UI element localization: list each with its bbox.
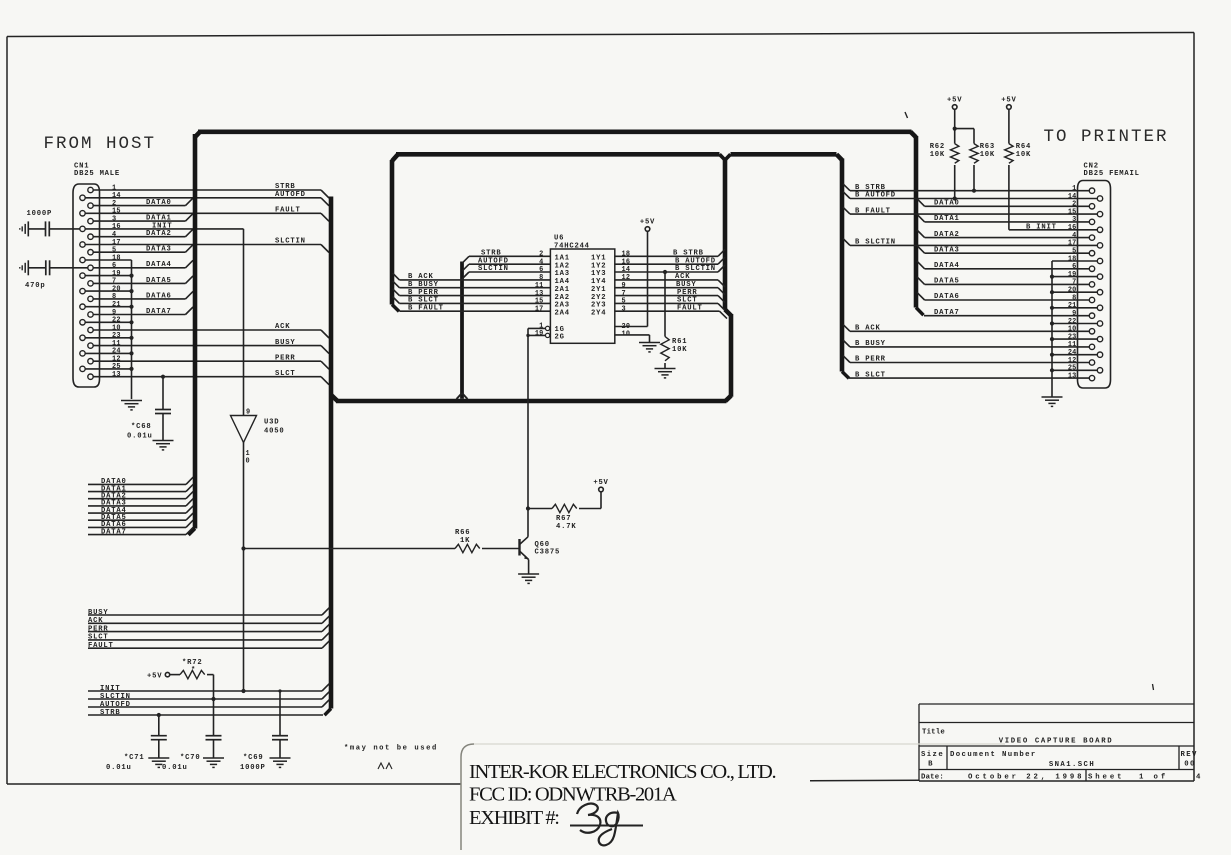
- svg-text:12: 12: [1068, 357, 1077, 365]
- wire ACK - U6 2Y1 to bottom bus: [615, 273, 725, 287]
- svg-text:21: 21: [1068, 302, 1077, 310]
- svg-text:+5V: +5V: [147, 673, 162, 681]
- svg-text:R62: R62: [930, 143, 945, 151]
- IC U6 74HC244: [545, 235, 614, 344]
- wire CN1 ground pins 18-25: [85, 260, 133, 399]
- svg-text:20: 20: [1068, 287, 1077, 295]
- bus - data bus right vertical: [911, 132, 924, 315]
- wire B SLCT - riser to CN2 pin 13: [849, 371, 1089, 379]
- wire AUTOFD - riser to U6 1A2: [462, 257, 550, 271]
- svg-text:15: 15: [535, 298, 544, 306]
- svg-text:October 22, 1998: October 22, 1998: [968, 774, 1084, 782]
- ground - C70: [203, 758, 224, 767]
- resistor R67 4.7K: [528, 492, 601, 531]
- wire STRB - CN1 pin 1 to control bus: [93, 183, 329, 198]
- svg-text:Title: Title: [922, 729, 945, 737]
- ground - C71: [148, 758, 169, 767]
- svg-text:DATA6: DATA6: [934, 293, 960, 301]
- svg-text:10K: 10K: [930, 151, 945, 159]
- svg-text:74HC244: 74HC244: [554, 242, 590, 250]
- net stub BUSY (lower left): [88, 608, 329, 617]
- svg-text:2Y2: 2Y2: [591, 294, 606, 302]
- ground - U6 pin 10: [639, 343, 660, 352]
- svg-text:14: 14: [1068, 193, 1077, 201]
- svg-text:18: 18: [1068, 255, 1077, 263]
- wire B PERR - riser to CN2 pin 12: [843, 356, 1089, 364]
- resistor R61 10K on B SLCTIN: [661, 270, 688, 368]
- svg-text:9: 9: [112, 309, 116, 317]
- svg-text:REV: REV: [1181, 751, 1198, 759]
- svg-text:0.01u: 0.01u: [162, 764, 188, 772]
- resistor R63 10K pull-up on B STRB: [955, 129, 995, 193]
- svg-text:*C71: *C71: [124, 754, 144, 762]
- svg-text:8: 8: [1072, 294, 1076, 302]
- ground - 470p cap: [20, 260, 29, 275]
- svg-text:23: 23: [1068, 333, 1077, 341]
- svg-text:1 of: 1 of: [1139, 774, 1168, 782]
- svg-text:2A3: 2A3: [555, 302, 570, 310]
- svg-text:+5V: +5V: [593, 479, 608, 487]
- svg-text:6: 6: [539, 266, 543, 274]
- wire AUTOFD - CN1 pin 14 to control bus: [85, 191, 329, 206]
- svg-text:10: 10: [1068, 326, 1077, 334]
- bus - data bus left vertical: [189, 132, 201, 535]
- svg-text:12: 12: [622, 274, 631, 282]
- svg-text:25: 25: [112, 363, 121, 371]
- svg-text:Document Number: Document Number: [950, 751, 1037, 759]
- svg-text:*C69: *C69: [243, 754, 263, 762]
- wire U6 pin 10 to ground: [615, 335, 650, 342]
- wire DATA7 - CN1 pin 9 to data bus: [93, 307, 193, 316]
- CN2 pin numbers: [1068, 185, 1077, 380]
- net stub DATA7 (lower left): [88, 527, 193, 536]
- svg-text:1A3: 1A3: [555, 270, 570, 278]
- net stub DATA6 (lower left): [88, 520, 193, 529]
- svg-text:5: 5: [112, 247, 116, 255]
- svg-text:24: 24: [1068, 349, 1077, 357]
- wire ACK - CN1 pin 10 to control bus: [93, 323, 329, 338]
- svg-text:BUSY: BUSY: [676, 281, 696, 289]
- svg-text:4: 4: [1196, 774, 1203, 782]
- net stub DATA3 (lower left): [88, 499, 193, 508]
- svg-text:2: 2: [1072, 201, 1076, 209]
- svg-text:PERR: PERR: [677, 289, 697, 297]
- wire B SLCTIN - riser to CN2 pin 17: [843, 239, 1097, 247]
- wire STRB - riser to U6 1A1: [462, 250, 550, 264]
- svg-text:B BUSY: B BUSY: [855, 340, 886, 348]
- svg-text:ACK: ACK: [88, 617, 103, 625]
- wire SLCTIN - CN1 pin 17 to control bus: [85, 238, 329, 253]
- svg-text:STRB: STRB: [275, 183, 295, 191]
- capacitor C70 0.01u on SLCTIN: [162, 699, 222, 772]
- svg-text:PERR: PERR: [275, 354, 295, 362]
- wire B SLCT - loop bus to U6 pin 15: [393, 297, 551, 305]
- svg-text:1000P: 1000P: [240, 764, 266, 772]
- svg-text:BUSY: BUSY: [88, 609, 108, 617]
- annotation: *may not be used: [344, 745, 438, 770]
- resistor R72 pull-up on SLCTIN: [147, 659, 216, 701]
- svg-text:B ACK: B ACK: [855, 325, 881, 333]
- svg-text:B AUTOFD: B AUTOFD: [675, 257, 716, 265]
- svg-text:DATA1: DATA1: [146, 215, 172, 223]
- bus - U6 output right vertical: [725, 158, 731, 397]
- svg-text:DATA5: DATA5: [146, 277, 172, 285]
- svg-text:DATA0: DATA0: [934, 200, 960, 208]
- wire DATA1 - data bus to CN2 pin 3: [917, 214, 1089, 223]
- resistor R62 10K pull-up on B AUTOFD: [930, 109, 959, 200]
- svg-text:23: 23: [112, 332, 121, 340]
- svg-text:1A1: 1A1: [555, 255, 570, 263]
- bus - U6 input riser: [457, 262, 468, 400]
- annotation: TO PRINTER heading: [1044, 127, 1169, 147]
- svg-text:B SLCTIN: B SLCTIN: [675, 265, 716, 273]
- svg-text:SLCT: SLCT: [88, 634, 108, 642]
- svg-text:19: 19: [112, 270, 121, 278]
- svg-text:ACK: ACK: [675, 273, 690, 281]
- svg-text:6: 6: [112, 262, 116, 270]
- net stub DATA5 (lower left): [88, 513, 193, 522]
- svg-text:8: 8: [112, 293, 116, 301]
- wire B STRB - riser to CN2 pin 1: [843, 184, 1089, 192]
- wire FAULT - U6 2Y5 to bottom bus: [615, 304, 727, 318]
- svg-text:14: 14: [622, 266, 631, 274]
- svg-text:ACK: ACK: [275, 323, 290, 331]
- svg-text:DATA4: DATA4: [934, 262, 960, 270]
- svg-text:FAULT: FAULT: [677, 304, 703, 312]
- CN1 pin numbers: [112, 184, 121, 379]
- svg-text:0.01u: 0.01u: [127, 433, 153, 441]
- svg-text:DATA7: DATA7: [934, 309, 960, 317]
- svg-text:R67: R67: [556, 515, 571, 523]
- svg-text:11: 11: [535, 282, 544, 290]
- svg-text:SLCT: SLCT: [677, 297, 697, 305]
- U6 pin numbers: [535, 251, 630, 339]
- net stub ACK (lower left): [88, 616, 329, 625]
- svg-text:5: 5: [622, 298, 626, 306]
- svg-text:2A1: 2A1: [555, 286, 570, 294]
- ground - R61: [655, 369, 676, 378]
- svg-text:1A2: 1A2: [555, 262, 570, 270]
- svg-text:2: 2: [539, 251, 543, 259]
- capacitor 470p on DATA4 line: [25, 260, 88, 290]
- bus - control bus bottom horizontal: [336, 396, 731, 401]
- ground - 1000P cap: [20, 221, 29, 236]
- svg-text:1Y3: 1Y3: [591, 270, 606, 278]
- svg-text:9: 9: [246, 409, 250, 417]
- svg-text:6: 6: [1072, 263, 1076, 271]
- svg-text:2A4: 2A4: [555, 309, 570, 317]
- svg-text:STRB: STRB: [481, 250, 501, 258]
- svg-text:AUTOFD: AUTOFD: [478, 257, 509, 265]
- svg-text:R61: R61: [672, 338, 687, 346]
- svg-text:AUTOFD: AUTOFD: [100, 701, 131, 709]
- wire DATA4 - data bus to CN2 pin 6: [917, 261, 1089, 270]
- svg-text:11: 11: [1068, 341, 1077, 349]
- svg-text:14: 14: [112, 192, 121, 200]
- node - C69 tap on INIT stub: [278, 689, 281, 692]
- capacitor C68 0.01u on SLCT: [127, 375, 171, 441]
- wire B AUTOFD - riser to CN2 pin 14: [843, 192, 1097, 200]
- ground - C68: [153, 441, 174, 450]
- wire DATA0 - CN1 pin 2 to data bus: [93, 198, 193, 207]
- CN1 pins: [80, 187, 93, 379]
- annotation: FROM HOST heading: [44, 134, 157, 154]
- svg-text:VIDEO CAPTURE BOARD: VIDEO CAPTURE BOARD: [999, 738, 1114, 746]
- net stub SLCT (lower left): [88, 633, 329, 642]
- svg-text:U6: U6: [554, 235, 564, 243]
- svg-text:1Y1: 1Y1: [591, 255, 606, 263]
- svg-text:DB25 FEMAIL: DB25 FEMAIL: [1084, 170, 1140, 178]
- svg-text:U3D: U3D: [264, 419, 279, 427]
- svg-text:DATA7: DATA7: [146, 308, 172, 316]
- svg-text:B SLCT: B SLCT: [408, 297, 439, 305]
- wire DATA4 - CN1 pin 6 to data bus: [93, 260, 193, 269]
- wire BUSY - CN1 pin 11 to control bus: [93, 339, 329, 354]
- svg-text:8: 8: [539, 274, 543, 282]
- wire B STRB - U6 1Y1 to top bus: [615, 249, 725, 257]
- svg-text:3: 3: [112, 215, 116, 223]
- wire B BUSY - loop bus to U6 pin 11: [393, 281, 551, 289]
- svg-text:B: B: [928, 761, 934, 769]
- wire PERR - CN1 pin 12 to control bus: [93, 354, 329, 369]
- +5V - R64: [1001, 97, 1016, 110]
- svg-text:INTER-KOR ELECTRONICS CO., LTD: INTER-KOR ELECTRONICS CO., LTD.: [469, 761, 775, 783]
- svg-text:16: 16: [112, 223, 121, 231]
- svg-text:470p: 470p: [25, 282, 45, 290]
- svg-text:13: 13: [1068, 372, 1077, 380]
- svg-text:SLCTIN: SLCTIN: [275, 238, 306, 246]
- svg-text:B FAULT: B FAULT: [855, 207, 891, 215]
- svg-text:DATA3: DATA3: [934, 246, 960, 254]
- svg-text:4: 4: [112, 231, 116, 239]
- wire Q60 collector to U6 enables: [526, 328, 545, 536]
- svg-text:*may not be used: *may not be used: [344, 745, 438, 753]
- svg-text:DATA2: DATA2: [146, 230, 172, 238]
- svg-text:19: 19: [535, 330, 544, 338]
- svg-text:17: 17: [1068, 240, 1077, 248]
- svg-text:2Y4: 2Y4: [591, 309, 606, 317]
- net stub DATA4 (lower left): [88, 506, 193, 515]
- capacitor C71 0.01u on STRB: [106, 713, 167, 772]
- wire B FAULT - loop bus to U6 pin 17: [399, 304, 550, 312]
- svg-text:BUSY: BUSY: [275, 339, 295, 347]
- svg-text:2A2: 2A2: [555, 294, 570, 302]
- wire DATA1 - CN1 pin 3 to data bus: [93, 214, 193, 223]
- svg-text:2Y1: 2Y1: [591, 286, 606, 294]
- wire B PERR - loop bus to U6 pin 13: [393, 289, 551, 297]
- svg-text:*C68: *C68: [131, 423, 151, 431]
- svg-text:24: 24: [112, 348, 121, 356]
- svg-text:R64: R64: [1016, 143, 1031, 151]
- wire DATA2 - CN1 pin 4 to data bus: [93, 229, 193, 238]
- wire DATA6 - CN1 pin 8 to data bus: [93, 291, 193, 300]
- svg-text:INIT: INIT: [152, 222, 172, 230]
- wire DATA2 - data bus to CN2 pin 4: [917, 230, 1089, 239]
- svg-text:11: 11: [112, 340, 121, 348]
- svg-text:Date:: Date:: [921, 774, 944, 782]
- bus - control bus left vertical: [325, 197, 338, 716]
- wire B ACK - loop bus to U6 pin 8: [393, 273, 551, 281]
- svg-text:10K: 10K: [980, 151, 995, 159]
- svg-text:B SLCTIN: B SLCTIN: [855, 239, 896, 247]
- +5V - R62/R63: [947, 97, 962, 110]
- svg-text:DATA7: DATA7: [101, 528, 127, 536]
- wire B INIT - R64 to CN2 pin 16: [1009, 223, 1098, 231]
- wire SLCT - CN1 pin 13 to control bus: [93, 370, 329, 385]
- svg-text:13: 13: [535, 290, 544, 298]
- svg-text:00: 00: [1184, 761, 1196, 769]
- wire B ACK - riser to CN2 pin 10: [843, 324, 1089, 332]
- svg-text:Size: Size: [921, 751, 944, 759]
- svg-text:7: 7: [622, 290, 626, 298]
- svg-text:+5V: +5V: [947, 97, 962, 105]
- wire DATA5 - CN1 pin 7 to data bus: [93, 276, 193, 285]
- capacitor C69 1000P on INIT: [240, 691, 288, 772]
- svg-text:AUTOFD: AUTOFD: [275, 191, 306, 199]
- net stub STRB (bottom left): [88, 709, 323, 717]
- svg-text:18: 18: [112, 254, 121, 262]
- svg-text:16: 16: [1068, 224, 1077, 232]
- svg-text:Sheet: Sheet: [1088, 774, 1124, 782]
- svg-text:13: 13: [112, 371, 121, 379]
- wire DATA7 - data bus to CN2 pin 9: [924, 309, 1089, 317]
- svg-text:B STRB: B STRB: [673, 250, 704, 258]
- ground - CN1 shell: [121, 401, 142, 410]
- wire DATA6 - data bus to CN2 pin 8: [917, 292, 1089, 301]
- svg-text:FCC ID: ODNWTRB-201A: FCC ID: ODNWTRB-201A: [469, 784, 677, 806]
- svg-text:0.01u: 0.01u: [106, 764, 132, 772]
- ground - Q60 emitter: [518, 574, 539, 583]
- svg-text:9: 9: [622, 282, 626, 290]
- svg-text:B AUTOFD: B AUTOFD: [855, 192, 896, 200]
- svg-text:SLCT: SLCT: [275, 370, 295, 378]
- svg-text:3: 3: [622, 305, 626, 313]
- svg-text:4: 4: [539, 258, 543, 266]
- svg-text:+5V: +5V: [640, 219, 655, 227]
- svg-text:B BUSY: B BUSY: [408, 281, 439, 289]
- wire DATA3 - data bus to CN2 pin 5: [917, 246, 1089, 255]
- svg-text:1Y2: 1Y2: [591, 262, 606, 270]
- svg-text:5: 5: [1072, 248, 1076, 256]
- svg-text:PERR: PERR: [88, 625, 108, 633]
- wire INIT - CN1 pin 16 to U3D input: [85, 222, 243, 415]
- svg-text:2G: 2G: [555, 334, 565, 342]
- svg-text:1: 1: [1072, 185, 1076, 193]
- wire DATA0 - data bus to CN2 pin 2: [917, 199, 1089, 208]
- svg-text:15: 15: [1068, 208, 1077, 216]
- svg-text:C3875: C3875: [535, 549, 561, 557]
- wire SLCTIN - riser to U6 1A3: [462, 265, 550, 279]
- bus - data bus top horizontal: [198, 130, 912, 135]
- svg-text:B SLCT: B SLCT: [855, 371, 886, 379]
- wire PERR - U6 2Y3 to bottom bus: [615, 289, 725, 303]
- svg-text:SLCTIN: SLCTIN: [100, 693, 131, 701]
- svg-text:SLCTIN: SLCTIN: [478, 265, 509, 273]
- net stub PERR (lower left): [88, 624, 329, 633]
- node - U3D output to INIT stub: [241, 689, 245, 693]
- svg-text:1000P: 1000P: [27, 210, 53, 218]
- svg-text:1Y4: 1Y4: [591, 278, 606, 286]
- svg-text:DATA6: DATA6: [146, 292, 172, 300]
- wire B FAULT - riser to CN2 pin 15: [843, 207, 1097, 215]
- ground - C69: [270, 758, 291, 767]
- svg-text:0: 0: [246, 458, 250, 466]
- svg-text:*C70: *C70: [180, 754, 200, 762]
- bus - U6 loop left vertical: [392, 155, 399, 312]
- wire U6 pin 20 to +5V: [615, 231, 648, 326]
- svg-text:FAULT: FAULT: [275, 207, 301, 215]
- wire B AUTOFD - U6 1Y2 to top bus: [615, 257, 725, 265]
- connector CN2 DB25 female: [1078, 163, 1140, 389]
- svg-text:25: 25: [1068, 365, 1077, 373]
- wire U3D output: [241, 443, 245, 692]
- svg-text:10: 10: [112, 324, 121, 332]
- svg-text:4: 4: [1072, 232, 1076, 240]
- resistor R64 10K pull-up on B INIT: [1005, 109, 1031, 230]
- svg-text:17: 17: [535, 305, 544, 313]
- svg-text:DATA1: DATA1: [934, 215, 960, 223]
- svg-text:4.7K: 4.7K: [556, 523, 576, 531]
- net stub DATA1 (lower left): [88, 484, 193, 493]
- net stub INIT (bottom left): [88, 684, 329, 693]
- svg-text:R66: R66: [455, 529, 470, 537]
- net stub DATA2 (lower left): [88, 491, 193, 500]
- svg-text:22: 22: [1068, 318, 1077, 326]
- +5V - R67: [593, 479, 608, 492]
- svg-text:4050: 4050: [264, 428, 284, 436]
- connector CN1 DB25 male: [73, 163, 120, 388]
- net stub AUTOFD (bottom left): [88, 700, 329, 709]
- bus - U6 loop top horizontal: [396, 154, 837, 160]
- ground - CN2 shell: [1042, 397, 1063, 406]
- svg-text:18: 18: [622, 251, 631, 259]
- svg-text:7: 7: [1072, 279, 1076, 287]
- svg-text:STRB: STRB: [100, 709, 120, 717]
- svg-text:15: 15: [112, 208, 121, 216]
- wire FAULT - CN1 pin 15 to control bus: [85, 207, 329, 222]
- wire DATA3 - CN1 pin 5 to data bus: [93, 245, 193, 254]
- net stub FAULT (lower left): [88, 641, 329, 650]
- wire B BUSY - riser to CN2 pin 11: [843, 340, 1089, 348]
- svg-text:1: 1: [112, 184, 116, 192]
- wire BUSY - U6 2Y2 to bottom bus: [615, 281, 725, 295]
- svg-text:DATA5: DATA5: [934, 278, 960, 286]
- transistor Q60 C3875: [520, 537, 561, 574]
- svg-text:B FAULT: B FAULT: [408, 304, 444, 312]
- wire B SLCTIN - U6 1Y3 to top bus: [615, 265, 725, 273]
- buffer U3D 4050: [231, 409, 285, 466]
- svg-text:DATA0: DATA0: [146, 199, 172, 207]
- svg-text:B INIT: B INIT: [1026, 223, 1057, 231]
- svg-text:TO PRINTER: TO PRINTER: [1044, 127, 1169, 147]
- svg-text:9: 9: [1072, 310, 1076, 318]
- +5V - U6 pin 20: [640, 219, 655, 232]
- net stub SLCTIN (bottom left): [88, 692, 329, 701]
- svg-text:19: 19: [1068, 271, 1077, 279]
- capacitor 1000P on INIT line: [27, 210, 81, 236]
- resistor R66 1K: [244, 529, 519, 553]
- CN2 pins: [1089, 188, 1102, 381]
- svg-text:DB25 MALE: DB25 MALE: [74, 170, 120, 178]
- svg-text:B PERR: B PERR: [408, 289, 439, 297]
- svg-text:1G: 1G: [555, 326, 565, 334]
- svg-text:DATA4: DATA4: [146, 261, 172, 269]
- svg-text:SNA1.SCH: SNA1.SCH: [1049, 761, 1095, 769]
- svg-text:3: 3: [1072, 216, 1076, 224]
- svg-text:B PERR: B PERR: [855, 356, 886, 364]
- svg-text:20: 20: [112, 285, 121, 293]
- wire SLCT - U6 2Y4 to bottom bus: [615, 297, 725, 311]
